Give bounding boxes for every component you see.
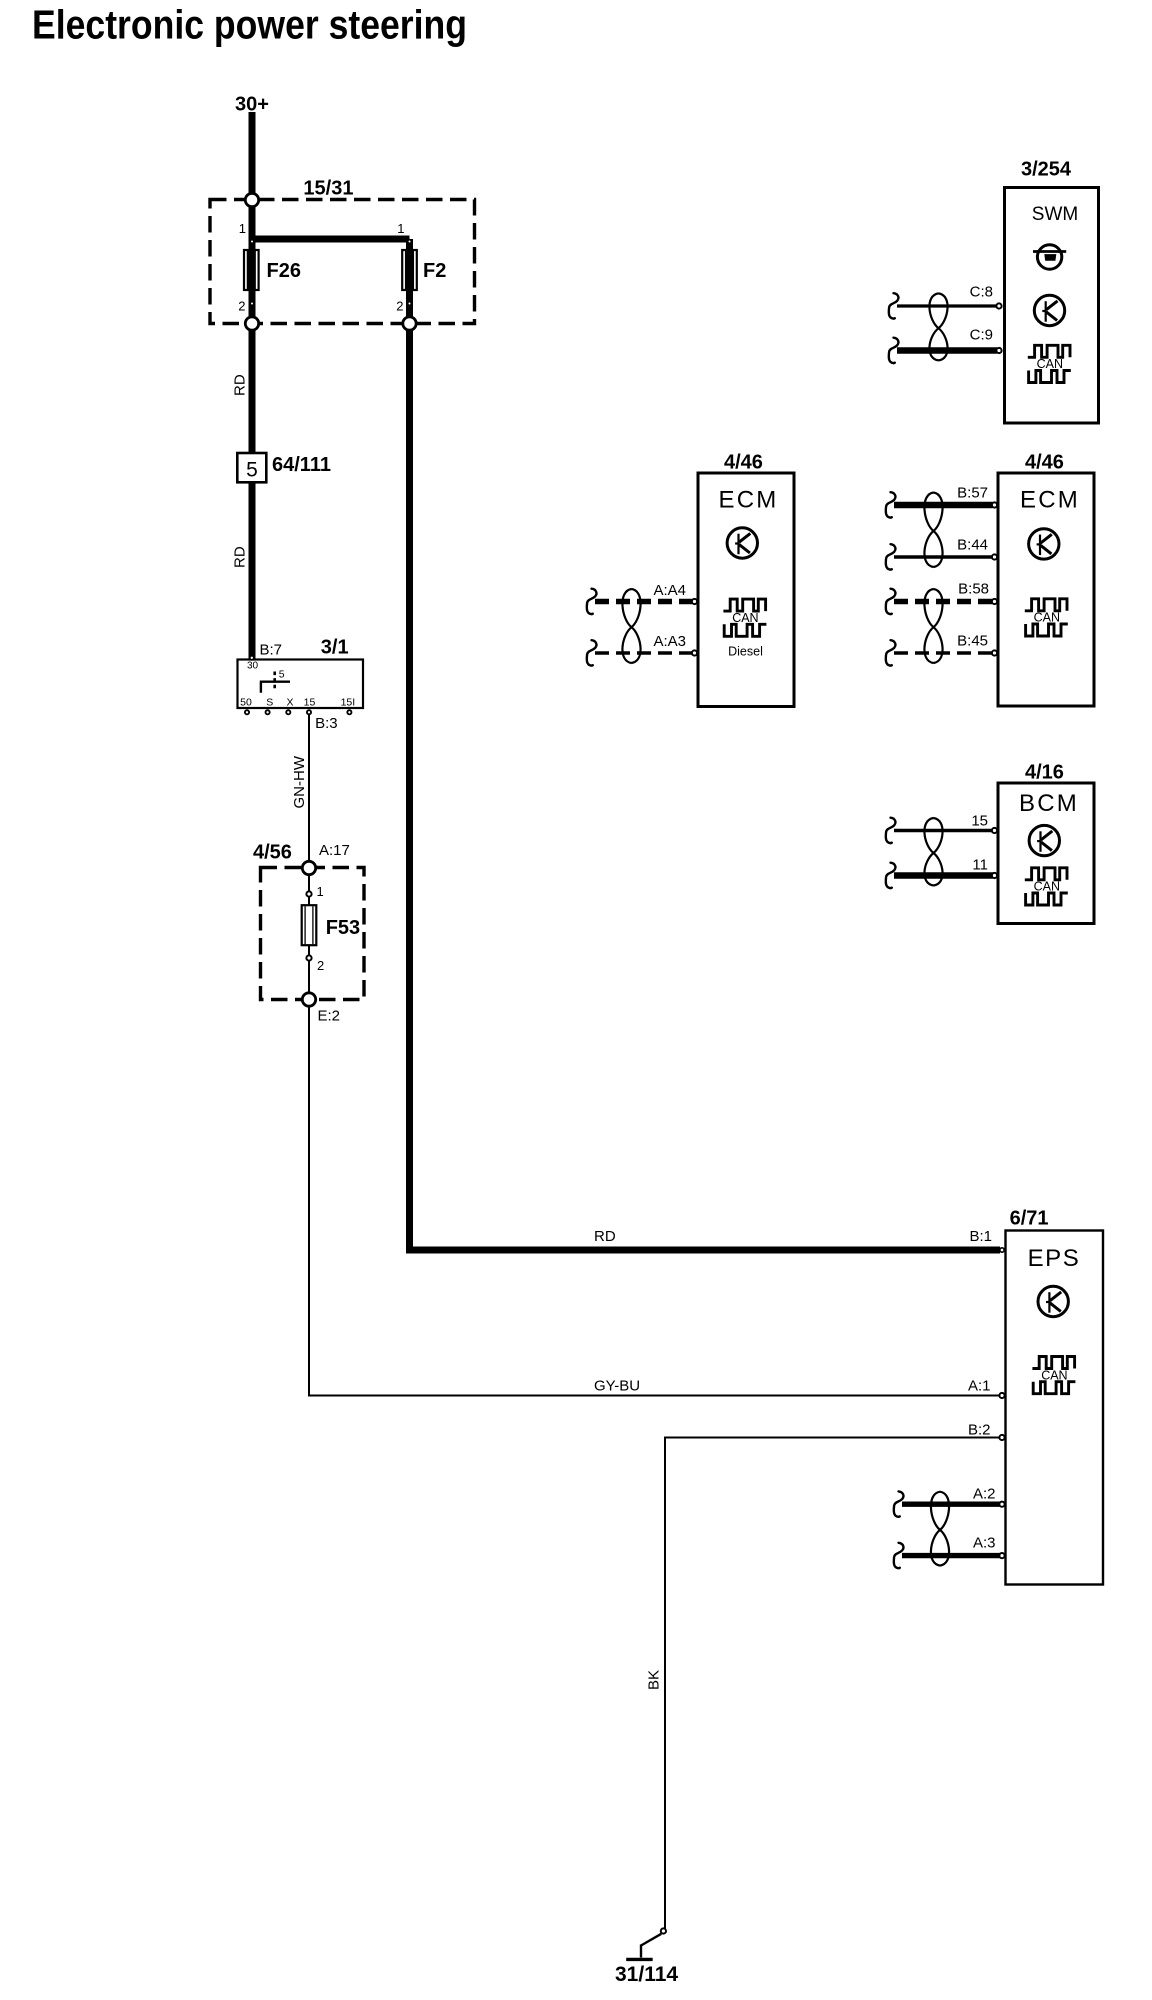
switch position dashed line in 3/1 bbox=[273, 672, 276, 691]
svg-text:6/71: 6/71 bbox=[1010, 1208, 1049, 1230]
module box 3/254 SWM bbox=[1005, 188, 1099, 424]
wire GN-HW from 3/1 B:3 to 4/56 A:17 bbox=[308, 711, 310, 866]
squiggle BCM 11 bbox=[886, 863, 896, 888]
svg-text:A:A3: A:A3 bbox=[653, 633, 686, 650]
svg-text:3/1: 3/1 bbox=[321, 636, 349, 658]
relay 3/1 pin bump X bbox=[286, 710, 290, 714]
relay box 3/1 ignition switch bbox=[238, 660, 364, 709]
junction node A:17 bbox=[302, 861, 315, 874]
svg-text:5: 5 bbox=[279, 669, 285, 681]
relay 3/1 pin bump 50 bbox=[245, 710, 249, 714]
twisted pair ECM A:A4/A:A3 bbox=[622, 589, 640, 663]
wire BCM pin 15 stub bbox=[894, 829, 993, 832]
fuse F53 pin 2 circle bbox=[306, 955, 311, 960]
wire EPS A:3 stub (CAN thick) bbox=[902, 1553, 1000, 1558]
CAN icon ECM right bbox=[1025, 599, 1067, 611]
twisted pair EPS A:2/A:3 bbox=[931, 1492, 949, 1566]
svg-text:SWM: SWM bbox=[1032, 204, 1078, 225]
pin EPS B:1 bbox=[1000, 1248, 1004, 1252]
pin EPS A:3 bbox=[999, 1553, 1004, 1558]
svg-text:B:58: B:58 bbox=[958, 581, 989, 598]
svg-text:GN-HW: GN-HW bbox=[291, 755, 308, 808]
pin ECM B:44 bbox=[992, 554, 997, 559]
svg-text:4/46: 4/46 bbox=[1025, 452, 1064, 474]
junction node F2 pin2 out bbox=[403, 317, 416, 330]
module box 4/16 BCM bbox=[998, 783, 1094, 924]
svg-text:Electronic power steering: Electronic power steering bbox=[32, 2, 467, 48]
wire EPS A:2 stub (CAN thick) bbox=[902, 1501, 1000, 1506]
fuse F2 bbox=[402, 250, 417, 290]
fuse F26 bbox=[244, 250, 259, 290]
diagnostic K icon ECM right bbox=[1029, 529, 1059, 559]
svg-text:4/56: 4/56 bbox=[253, 842, 292, 864]
pin EPS A:1 bbox=[999, 1393, 1004, 1398]
svg-text:BK: BK bbox=[645, 1670, 662, 1690]
svg-text:RD: RD bbox=[232, 374, 249, 396]
svg-text:ECM: ECM bbox=[1020, 486, 1080, 513]
fuse F26 pin 2 nub bbox=[249, 301, 254, 306]
CAN icon ECM left bbox=[723, 599, 765, 611]
svg-text:B:45: B:45 bbox=[957, 632, 988, 649]
wire BK from EPS B:2 to ground 31/114 bbox=[665, 1438, 1000, 1929]
wire SWM C:8 stub bbox=[897, 304, 997, 307]
relay 3/1 pin bump 15 bbox=[307, 710, 311, 714]
wire ECM B:45 stub (dashed) bbox=[894, 651, 993, 654]
diagnostic K icon BCM bbox=[1029, 825, 1059, 855]
pin ECM B:45 bbox=[992, 650, 997, 655]
squiggle C:9 bbox=[889, 338, 899, 363]
svg-text:3/254: 3/254 bbox=[1021, 159, 1072, 181]
svg-text:31/114: 31/114 bbox=[615, 1963, 678, 1986]
svg-text:EPS: EPS bbox=[1028, 1245, 1081, 1272]
svg-text:ECM: ECM bbox=[719, 487, 779, 514]
svg-text:RD: RD bbox=[594, 1228, 616, 1245]
pin SWM C:8 bbox=[996, 303, 1001, 308]
svg-text:B:3: B:3 bbox=[315, 715, 338, 732]
svg-text:B:7: B:7 bbox=[260, 642, 283, 659]
ground symbol 31/114 bbox=[626, 1928, 666, 1959]
svg-text:CAN: CAN bbox=[1034, 880, 1060, 894]
svg-text:A:3: A:3 bbox=[973, 1535, 996, 1552]
svg-text:CAN: CAN bbox=[1034, 611, 1060, 625]
fuse holder 4/56 (dashed outline) bbox=[261, 868, 365, 1000]
wire GY-BU from 4/56 E:2 to EPS A:1 bbox=[309, 1004, 1000, 1396]
squiggle B:44 bbox=[886, 544, 896, 569]
connector 64/111 (square, pin 5) bbox=[237, 453, 266, 482]
pin ECM B:57 bbox=[992, 502, 997, 507]
junction node 30+ into 15/31 bbox=[245, 193, 258, 206]
fuse box 15/31 (dashed outline) bbox=[210, 200, 475, 324]
junction node F26 pin2 out bbox=[245, 317, 258, 330]
svg-text:CAN: CAN bbox=[1041, 1368, 1067, 1382]
CAN icon EPS bbox=[1032, 1357, 1074, 1369]
fuse F2 pin 1 nub bbox=[407, 239, 412, 244]
pin ECM A:A4 bbox=[692, 599, 697, 604]
pin ECM A:A3 bbox=[692, 650, 697, 655]
svg-text:64/111: 64/111 bbox=[272, 454, 331, 476]
module box 6/71 EPS bbox=[1006, 1231, 1104, 1585]
wire ECM A:A3 stub (dashed) bbox=[595, 651, 692, 654]
svg-text:1: 1 bbox=[397, 221, 404, 236]
svg-text:15I: 15I bbox=[341, 696, 356, 708]
svg-text:30+: 30+ bbox=[235, 94, 269, 116]
junction node E:2 bbox=[302, 993, 315, 1006]
module box 4/46 ECM (left) bbox=[698, 473, 794, 707]
svg-text:15/31: 15/31 bbox=[303, 177, 353, 199]
svg-text:2: 2 bbox=[317, 958, 324, 973]
svg-text:2: 2 bbox=[238, 299, 245, 314]
fuse F53 pin 1 circle bbox=[306, 891, 311, 896]
squiggle A:A3 bbox=[587, 640, 597, 665]
wire RD from F2 to EPS B:1 (L-shape) bbox=[410, 239, 1001, 1250]
svg-text:50: 50 bbox=[240, 696, 252, 708]
diagnostic K icon ECM left bbox=[727, 528, 757, 558]
svg-text:15: 15 bbox=[304, 696, 316, 708]
svg-text:4/46: 4/46 bbox=[724, 452, 763, 474]
svg-text:CAN: CAN bbox=[732, 611, 758, 625]
svg-text:B:1: B:1 bbox=[969, 1228, 992, 1245]
relay 3/1 pin bump 15I bbox=[347, 710, 351, 714]
diagnostic K icon EPS bbox=[1038, 1286, 1068, 1316]
wire ECM B:58 stub (dashed thick) bbox=[894, 599, 993, 605]
svg-text:1: 1 bbox=[239, 221, 246, 236]
svg-text:A:17: A:17 bbox=[319, 842, 350, 859]
pin SWM C:9 bbox=[996, 348, 1001, 353]
steering wheel icon SWM bbox=[1033, 245, 1066, 269]
squiggle A:A4 bbox=[587, 589, 597, 614]
squiggle B:58 bbox=[886, 589, 896, 614]
fuse F26 pin 1 nub bbox=[249, 239, 254, 244]
svg-text:B:57: B:57 bbox=[957, 484, 988, 501]
wire ECM B:44 stub bbox=[894, 555, 993, 558]
CAN icon SWM bbox=[1028, 345, 1070, 357]
svg-text:F53: F53 bbox=[326, 917, 360, 939]
wire ECM A:A4 stub (dashed thick) bbox=[595, 599, 692, 605]
svg-text:A:2: A:2 bbox=[973, 1485, 996, 1502]
wire ECM B:57 stub (CAN thick) bbox=[894, 502, 993, 509]
fuse F2 pin 2 nub bbox=[407, 301, 412, 306]
wire through fuse holder 4/56 bbox=[308, 870, 310, 997]
relay 3/1 pin B:7 tick bbox=[250, 656, 254, 660]
squiggle B:45 bbox=[886, 640, 896, 665]
svg-text:2: 2 bbox=[396, 299, 403, 314]
pin BCM 11 bbox=[992, 873, 997, 878]
squiggle C:8 bbox=[889, 293, 899, 318]
pin ECM B:58 bbox=[992, 599, 997, 604]
squiggle B:57 bbox=[886, 492, 896, 517]
pin BCM 15 bbox=[992, 828, 997, 833]
svg-text:1: 1 bbox=[317, 884, 324, 899]
svg-text:S: S bbox=[266, 696, 273, 708]
twisted pair ECM B:58/B:45 bbox=[924, 589, 942, 663]
svg-text:30: 30 bbox=[247, 661, 259, 672]
svg-text:A:A4: A:A4 bbox=[653, 582, 686, 599]
squiggle EPS A:2 bbox=[894, 1491, 904, 1516]
svg-text:GY-BU: GY-BU bbox=[594, 1378, 640, 1395]
twisted pair ECM B:57/B:44 bbox=[924, 493, 942, 568]
svg-text:RD: RD bbox=[232, 546, 249, 568]
svg-text:F2: F2 bbox=[423, 260, 446, 282]
svg-text:C:8: C:8 bbox=[970, 284, 993, 301]
module box 4/46 ECM (right) bbox=[998, 473, 1094, 706]
fuse F53 bbox=[302, 905, 317, 945]
twisted pair SWM C:8/C:9 bbox=[929, 293, 947, 360]
wire 30+ battery feed (RD, vertical x=252) bbox=[249, 112, 256, 659]
svg-text:4/16: 4/16 bbox=[1025, 761, 1064, 783]
squiggle EPS A:3 bbox=[894, 1543, 904, 1568]
pin EPS A:2 bbox=[999, 1502, 1004, 1507]
diagnostic K icon SWM bbox=[1034, 295, 1064, 325]
svg-text:11: 11 bbox=[972, 857, 988, 874]
svg-text:B:44: B:44 bbox=[957, 536, 988, 553]
wire fuse-box internal branch 1-1 bbox=[252, 236, 410, 243]
relay 3/1 pin bump S bbox=[266, 710, 270, 714]
svg-text:E:2: E:2 bbox=[318, 1007, 341, 1024]
twisted pair BCM 15/11 bbox=[924, 818, 942, 886]
CAN icon BCM bbox=[1025, 868, 1067, 880]
switch contact symbol in 3/1 bbox=[260, 682, 290, 693]
wire SWM C:9 stub (CAN thick) bbox=[897, 347, 997, 354]
svg-text:F26: F26 bbox=[267, 260, 301, 282]
svg-text:BCM: BCM bbox=[1019, 790, 1079, 817]
svg-text:CAN: CAN bbox=[1037, 357, 1063, 371]
squiggle BCM 15 bbox=[886, 818, 896, 843]
svg-text:5: 5 bbox=[246, 459, 258, 482]
svg-text:15: 15 bbox=[971, 812, 988, 829]
svg-text:X: X bbox=[286, 696, 293, 708]
svg-text:B:2: B:2 bbox=[968, 1422, 991, 1439]
wire BCM pin 11 stub (CAN thick) bbox=[894, 872, 993, 879]
pin EPS B:2 bbox=[999, 1435, 1004, 1440]
svg-text:C:9: C:9 bbox=[970, 326, 993, 343]
svg-text:A:1: A:1 bbox=[968, 1377, 991, 1394]
svg-text:Diesel: Diesel bbox=[728, 645, 763, 659]
